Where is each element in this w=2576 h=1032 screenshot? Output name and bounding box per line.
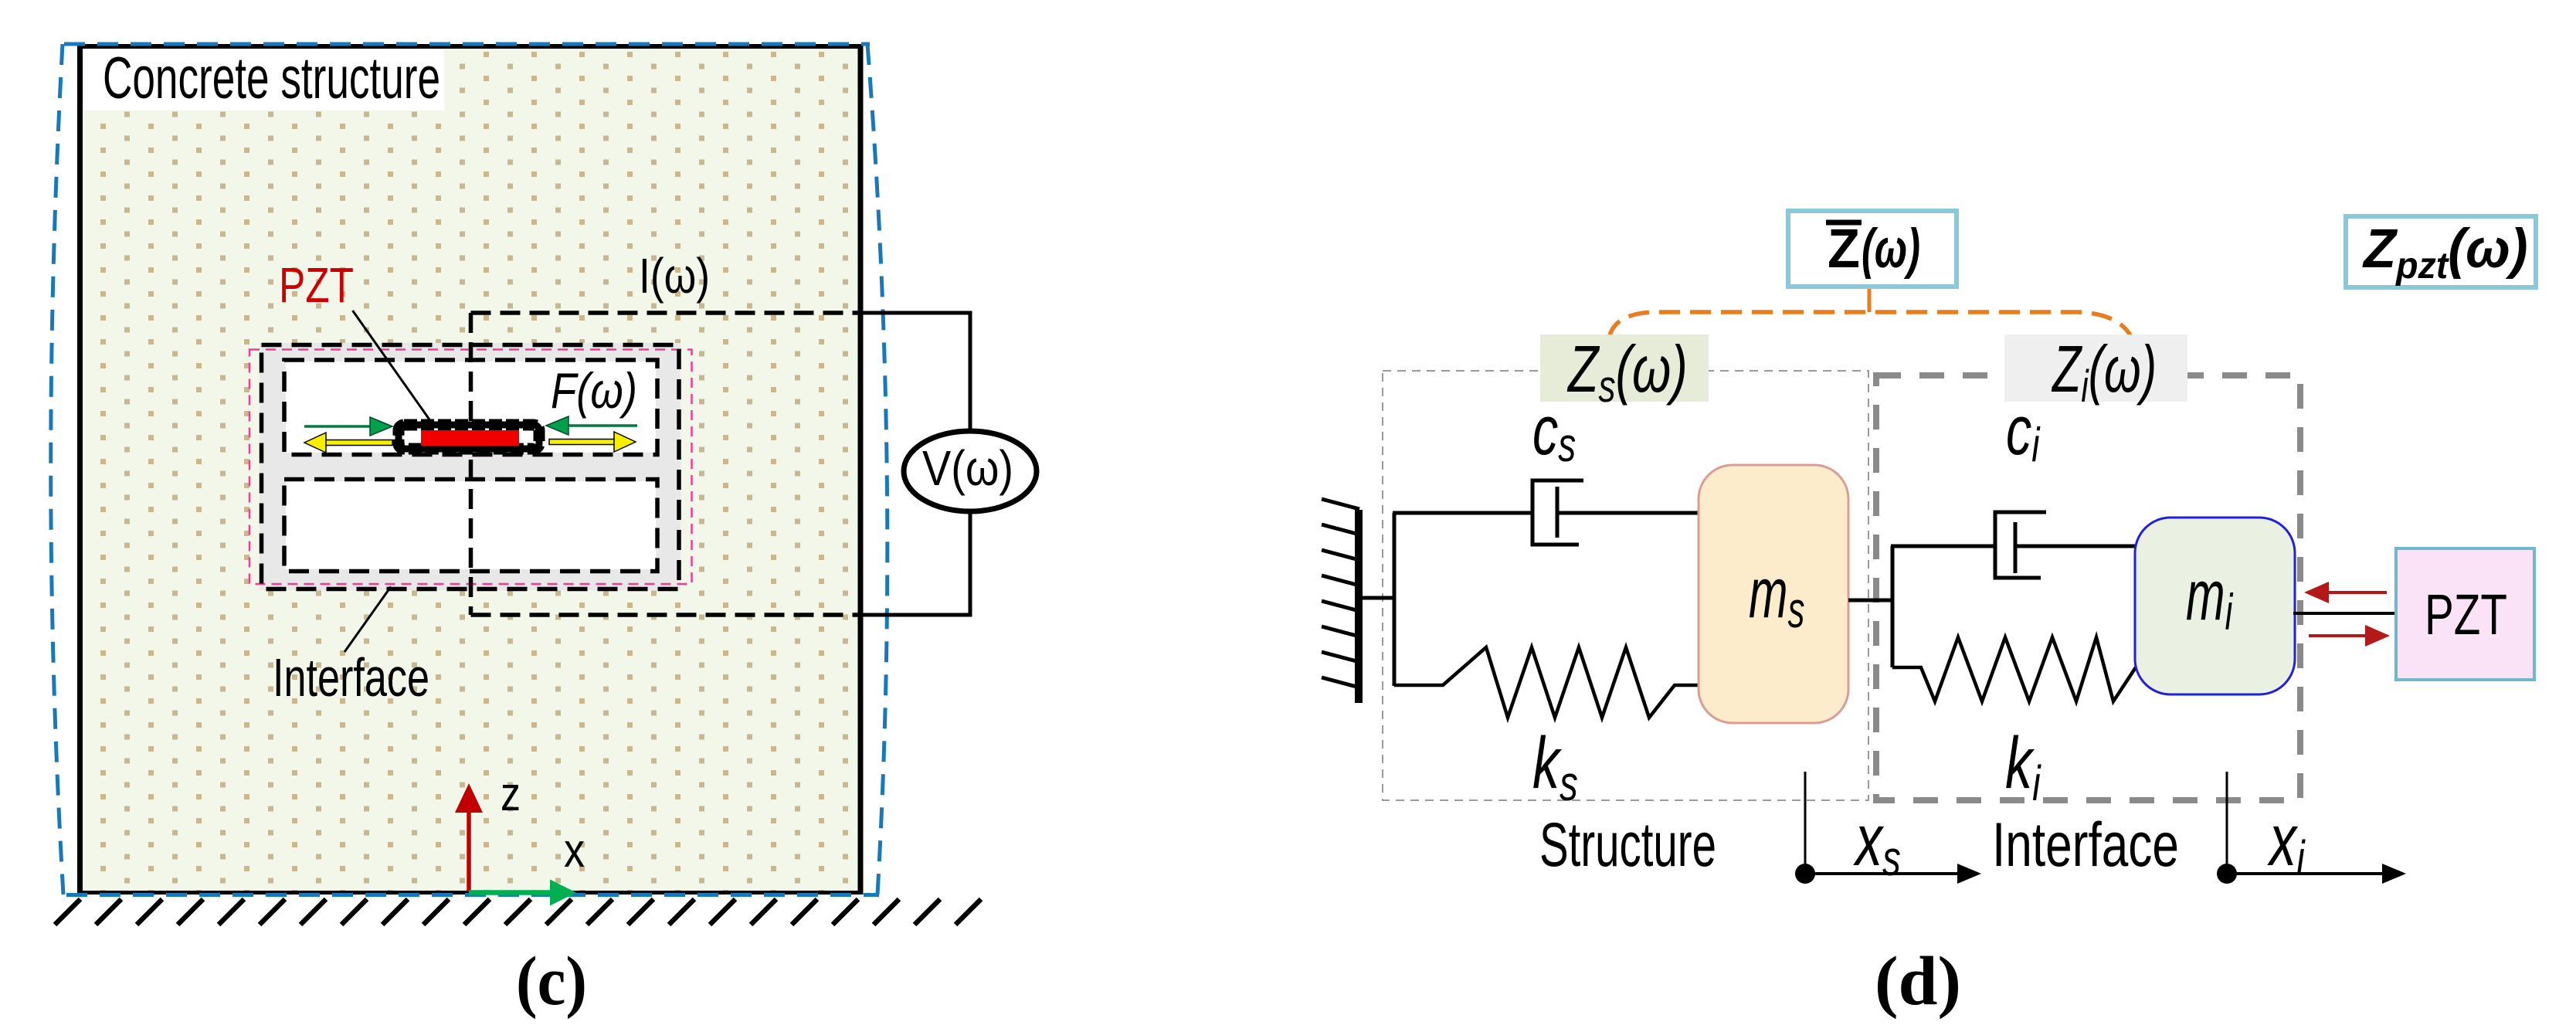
concrete border top [77,44,863,49]
blue dashed boundary left curve [51,44,63,895]
xs arrow [1811,864,1981,884]
wall stub [1361,596,1396,600]
damper ci output line [2015,545,2135,548]
link ms to interface [1848,599,1894,603]
svg-text:Interface: Interface [273,647,429,708]
svg-text:ki: ki [2005,721,2041,811]
blue dashed boundary bottom [66,893,879,897]
damper ci piston [2014,522,2018,573]
yellow arrow left [304,433,392,453]
PZT leader line [353,311,432,422]
PZT sensor outline beads [399,425,539,449]
interface outer dashed rect [262,345,680,589]
red arrow upper (left) [2304,582,2387,603]
I(w) dashed loop bottom [471,613,861,617]
Interface leader line [344,587,391,653]
label background [83,49,444,110]
svg-text:I(ω): I(ω) [639,248,710,304]
svg-text:Interface: Interface [1992,810,2179,880]
link mi to PZT [2293,612,2396,615]
orange tick [1868,287,1872,312]
damper cs cylinder [1532,480,1583,545]
svg-text:PZT: PZT [2425,582,2507,647]
PZT sensor red patch [421,430,519,446]
svg-text:Concrete structure: Concrete structure [103,46,440,111]
svg-text:Zs(ω): Zs(ω) [1566,332,1688,411]
svg-text:(d): (d) [1875,943,1961,1020]
I(w) dashed loop top [471,311,861,315]
damper cs piston [1556,487,1560,538]
svg-text:xi: xi [2267,799,2306,886]
svg-text:Structure: Structure [1539,810,1716,880]
damper ci input line [1891,545,1997,548]
wall [1355,510,1363,703]
interface bottom chamber white [286,481,656,569]
concrete border bottom [77,891,863,895]
svg-text:(c): (c) [516,943,587,1020]
blue dashed boundary right curve [867,44,888,895]
PZT box [2396,548,2534,680]
green arrow right [546,416,637,435]
wire to voltage source [860,313,970,433]
ground hatching [55,899,981,925]
svg-text:ci: ci [2006,391,2041,471]
damper cs input line [1393,511,1534,515]
spring ks [1394,647,1699,718]
svg-text:Z: Z [1828,219,1860,280]
I(w) dashed loop vertical [469,313,473,615]
concrete border left [77,44,83,895]
orange brace [1609,312,2132,338]
structure bus [1393,513,1397,686]
svg-text:z: z [501,768,521,821]
xs marker line [1804,772,1807,869]
wire [860,511,970,615]
pink dashed rect [249,350,692,585]
yellow arrow right [549,432,636,452]
PZT sensor outline core [399,425,539,449]
interface top chamber white [286,362,656,453]
svg-text:xs: xs [1853,799,1901,886]
xs dot [1795,864,1815,884]
Zbar box [1788,211,1957,287]
damper ci cylinder [1995,512,2046,578]
Zs label [1540,334,1709,402]
concrete border right [858,44,864,895]
blue dashed boundary top [64,42,870,46]
svg-text:V(ω): V(ω) [922,440,1013,496]
svg-text:Zi(ω): Zi(ω) [2051,332,2157,412]
xi arrow [2233,864,2406,884]
structure thin dashed rect [1383,371,1868,800]
interface gray ring [260,343,680,590]
svg-text:F(ω): F(ω) [551,362,637,419]
damper cs output line [1557,511,1699,515]
Zpzt box [2346,216,2536,287]
svg-text:(ω): (ω) [1862,219,1920,280]
green arrow left [304,417,392,436]
voltage source V(w) [904,431,1037,511]
interface bus [1891,546,1895,667]
interface bottom chamber dashed rect [284,480,657,572]
mass ms [1699,465,1848,723]
svg-text:ks: ks [1532,721,1578,811]
concrete body fill [80,46,860,891]
red arrow lower (right) [2309,625,2390,647]
xi marker line [2226,772,2228,869]
spring ki [1892,637,2136,701]
interface thick dashed rect [1876,375,2300,800]
xi dot [2217,864,2237,884]
z axis arrow [455,783,483,891]
svg-text:PZT: PZT [279,257,354,313]
Zi label [2004,334,2187,402]
interface top chamber dashed rect [284,360,657,455]
svg-text:x: x [564,824,585,878]
wall hatching [1322,499,1359,687]
mass mi [2135,518,2295,694]
x axis arrow [469,880,576,906]
